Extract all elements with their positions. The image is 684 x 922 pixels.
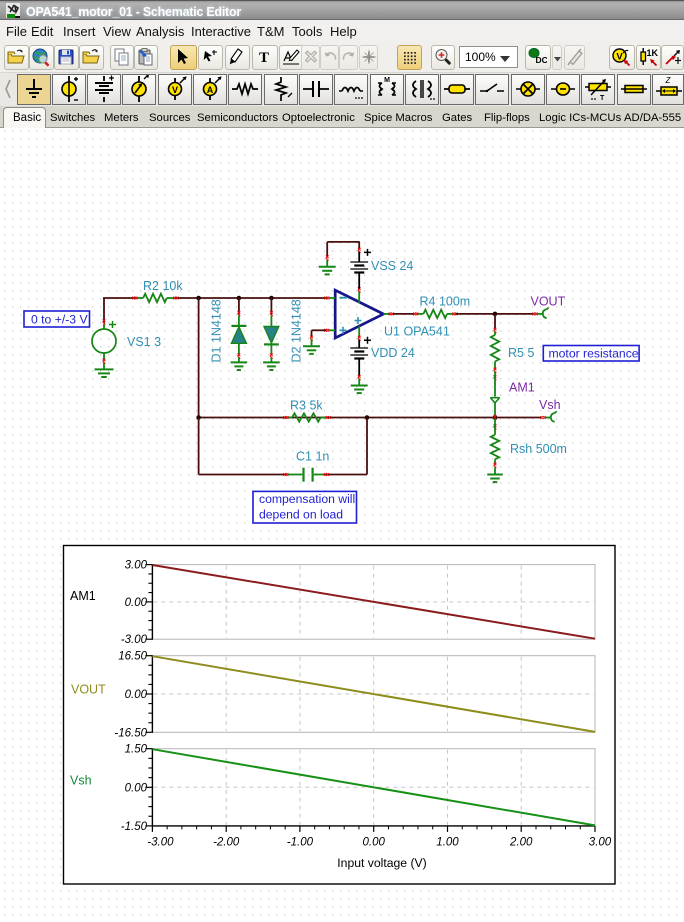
label VSS 24 — [371, 259, 413, 273]
wire: R4 to VOUT node — [456, 313, 533, 315]
svg-text:VOUT: VOUT — [71, 683, 106, 697]
label VOUT — [531, 295, 566, 309]
svg-text:T: T — [259, 50, 269, 66]
curve label Vsh — [70, 774, 92, 788]
svg-text:0.00: 0.00 — [125, 689, 148, 701]
svg-text:Rsh 500m: Rsh 500m — [510, 442, 567, 456]
svg-text:AM1: AM1 — [509, 381, 535, 395]
pin: U1 non-inverting input — [324, 329, 335, 332]
svg-text:2.00: 2.00 — [509, 837, 533, 849]
battery VSS 24 — [350, 249, 371, 273]
node: shunt junction — [493, 415, 498, 420]
op-amp U1 OPA541 — [335, 290, 383, 338]
label VDD 24 — [371, 346, 415, 360]
diode D2 1N4148 — [264, 316, 279, 359]
annotation box: 0 to +/-3 V — [24, 311, 90, 327]
svg-text:1.50: 1.50 — [125, 744, 148, 756]
resistor R4 100m — [413, 310, 458, 318]
svg-text:3.00: 3.00 — [589, 837, 612, 849]
svg-text:R5 5: R5 5 — [508, 346, 534, 360]
wire: + input to ground — [310, 330, 326, 341]
y axes with ticks — [145, 564, 152, 826]
svg-text:Vsh: Vsh — [70, 774, 92, 788]
capacitor C1 1n — [283, 468, 329, 482]
node: D2 junction — [269, 296, 274, 301]
svg-text:DC: DC — [536, 55, 548, 65]
ground at + input — [303, 339, 320, 354]
ground below D2 — [263, 357, 280, 370]
svg-text:0.00: 0.00 — [125, 597, 148, 609]
ground below D1 — [231, 357, 248, 370]
svg-text:L: L — [380, 87, 383, 93]
svg-text:0 to +/-3 V: 0 to +/-3 V — [31, 313, 88, 327]
svg-text:motor resistance: motor resistance — [549, 347, 639, 361]
chart frame — [64, 546, 616, 885]
svg-text:A: A — [207, 85, 214, 95]
svg-text:0.00: 0.00 — [125, 782, 148, 794]
svg-text:R4 100m: R4 100m — [420, 295, 471, 309]
wire: VSS battery top — [358, 242, 361, 262]
svg-text:Vsh: Vsh — [539, 398, 561, 412]
svg-text:M: M — [384, 77, 390, 84]
wire: output to R4 — [393, 313, 415, 315]
svg-text:Input voltage (V): Input voltage (V) — [337, 856, 426, 870]
pin: U1 negative supply (bottom) — [358, 326, 361, 341]
wire: VSS battery bottom to op-amp — [358, 272, 360, 288]
label Vsh — [539, 398, 561, 412]
label R5 5 — [508, 346, 534, 360]
curve label VOUT — [71, 683, 106, 697]
panel borders — [152, 565, 595, 826]
svg-text:-16.50: -16.50 — [114, 727, 147, 739]
resistor R5 5 (motor resistance) — [491, 332, 499, 373]
wire: feedback tap down to R3 net — [198, 298, 200, 418]
wire: C1 loop left/bottom/right — [199, 418, 367, 475]
x axis with ticks — [152, 826, 595, 832]
svg-text:-3.00: -3.00 — [147, 837, 174, 849]
wire: D1 stem — [238, 298, 241, 316]
x axis labels — [147, 837, 612, 849]
annotation box: motor resistance — [543, 346, 639, 362]
battery VDD 24 — [350, 337, 371, 381]
svg-text:-2.00: -2.00 — [213, 837, 240, 849]
svg-text:1K: 1K — [647, 48, 659, 58]
svg-text:VSS 24: VSS 24 — [371, 259, 413, 273]
node: R3 right junction — [365, 415, 370, 420]
x axis title: Input voltage (V) — [337, 856, 426, 870]
y axis labels — [114, 560, 147, 833]
curve Vsh (shunt voltage) — [152, 749, 595, 825]
ground below Rsh — [487, 468, 503, 483]
svg-text:AM1: AM1 — [70, 589, 96, 603]
pin: U1 output — [383, 313, 394, 316]
wire: VSS loop to ground — [326, 242, 360, 261]
label AM1 — [509, 381, 535, 395]
ammeter AM1 — [490, 372, 500, 417]
svg-text:D2 1N4148: D2 1N4148 — [290, 299, 304, 362]
resistor R3 5k — [283, 413, 331, 421]
dashed gridlines — [153, 566, 594, 825]
svg-text:1.00: 1.00 — [436, 837, 459, 849]
resistor R2 10k — [132, 294, 178, 302]
label C1 1n — [296, 450, 329, 464]
wire: VS1 top to main input net — [103, 298, 105, 324]
wire: D2 stem — [270, 298, 273, 316]
svg-text:R2 10k: R2 10k — [143, 279, 183, 293]
label R4 100m — [420, 295, 471, 309]
node: R3 left junction — [196, 415, 201, 420]
curve label AM1 — [70, 589, 96, 603]
svg-text:Z: Z — [664, 76, 671, 85]
svg-text:V: V — [616, 52, 623, 63]
annotation box: compensation will depend on load — [253, 491, 357, 523]
svg-text:D1 1N4148: D1 1N4148 — [210, 299, 224, 362]
svg-text:0.00: 0.00 — [363, 837, 386, 849]
pin marker VS1 top — [103, 319, 106, 324]
label D2 1N4148 (rotated) — [290, 299, 304, 362]
svg-text:C1 1n: C1 1n — [296, 450, 329, 464]
svg-text:-1.00: -1.00 — [287, 837, 314, 849]
node: D1 junction — [237, 296, 242, 301]
label D1 1N4148 (rotated) — [210, 299, 224, 362]
svg-text:compensation will: compensation will — [259, 492, 355, 506]
label U1 OPA541 — [384, 325, 450, 339]
node: feedback tap junction — [196, 296, 201, 301]
resistor Rsh 500m — [491, 419, 499, 468]
ground below VDD — [351, 379, 368, 394]
label R3 5k — [290, 399, 323, 413]
svg-text:V: V — [172, 85, 178, 95]
pin: U1 positive supply (top) — [358, 287, 361, 303]
output terminal Vsh — [540, 411, 556, 422]
wire: VOUT node down to R5 — [494, 314, 497, 333]
output terminal VOUT — [532, 308, 548, 319]
ground below VS1 — [95, 359, 114, 377]
pin: U1 inverting input — [324, 297, 335, 300]
svg-text:VOUT: VOUT — [531, 295, 566, 309]
svg-text:VDD 24: VDD 24 — [371, 346, 415, 360]
svg-text:-1.50: -1.50 — [121, 821, 148, 833]
curve AM1 (motor current) — [152, 565, 595, 639]
svg-text:T: T — [600, 95, 605, 102]
ground at VSS — [319, 260, 336, 275]
wire: main horizontal net at y=298 — [103, 297, 327, 299]
svg-text:L: L — [392, 87, 395, 93]
voltage source VS1 — [92, 321, 116, 361]
node: VOUT junction — [493, 312, 498, 317]
diode D1 1N4148 — [231, 316, 246, 359]
label R2 10k — [143, 279, 183, 293]
svg-text:R3 5k: R3 5k — [290, 399, 323, 413]
curve VOUT (output voltage) — [152, 656, 595, 732]
svg-text:16.50: 16.50 — [118, 651, 147, 663]
svg-text:3.00: 3.00 — [125, 560, 148, 572]
svg-text:-3.00: -3.00 — [121, 634, 148, 646]
label VS1 3 — [127, 335, 161, 349]
svg-text:VS1 3: VS1 3 — [127, 335, 161, 349]
wire: shunt net at y=417.5 — [199, 417, 541, 419]
svg-text:U1 OPA541: U1 OPA541 — [384, 325, 450, 339]
svg-text:depend on load: depend on load — [259, 508, 343, 522]
label Rsh 500m — [510, 442, 567, 456]
